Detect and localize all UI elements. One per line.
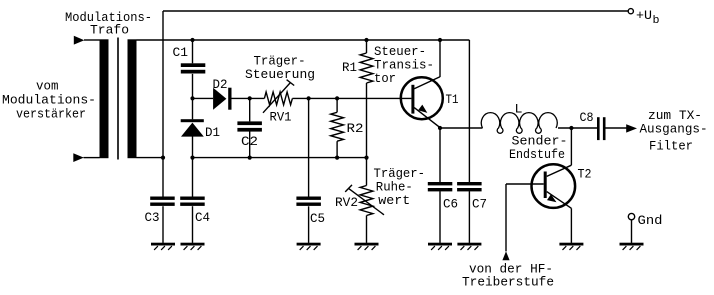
svg-text:Trafo: Trafo <box>90 23 129 38</box>
svg-text:T1: T1 <box>446 92 459 107</box>
svg-text:Ausgangs-: Ausgangs- <box>640 122 708 137</box>
svg-text:C1: C1 <box>173 45 189 60</box>
svg-text:C2: C2 <box>241 134 258 149</box>
svg-text:RV2: RV2 <box>335 195 358 210</box>
svg-text:Endstufe: Endstufe <box>509 147 565 162</box>
svg-text:vom: vom <box>36 79 59 94</box>
svg-text:wert: wert <box>378 193 410 208</box>
svg-text:Filter: Filter <box>649 139 693 154</box>
svg-text:verstärker: verstärker <box>16 107 86 122</box>
svg-text:Modulations-: Modulations- <box>2 93 96 108</box>
svg-text:C4: C4 <box>195 210 210 225</box>
svg-text:D2: D2 <box>213 77 228 92</box>
svg-text:C7: C7 <box>472 197 487 212</box>
svg-text:Gnd: Gnd <box>638 213 663 228</box>
svg-text:tor: tor <box>374 71 396 86</box>
svg-text:+U: +U <box>636 8 652 23</box>
svg-text:C3: C3 <box>145 210 160 225</box>
svg-text:L: L <box>515 102 523 117</box>
svg-text:Treiberstufe: Treiberstufe <box>462 275 554 290</box>
svg-text:C6: C6 <box>443 197 458 212</box>
svg-text:D1: D1 <box>205 125 220 140</box>
svg-text:R1: R1 <box>342 60 357 75</box>
svg-text:b: b <box>653 15 660 27</box>
svg-text:C8: C8 <box>580 110 594 125</box>
svg-text:R2: R2 <box>347 121 364 136</box>
svg-text:T2: T2 <box>578 167 592 182</box>
svg-text:C5: C5 <box>310 211 325 226</box>
svg-text:Steuerung: Steuerung <box>245 67 315 82</box>
svg-text:RV1: RV1 <box>270 110 292 125</box>
